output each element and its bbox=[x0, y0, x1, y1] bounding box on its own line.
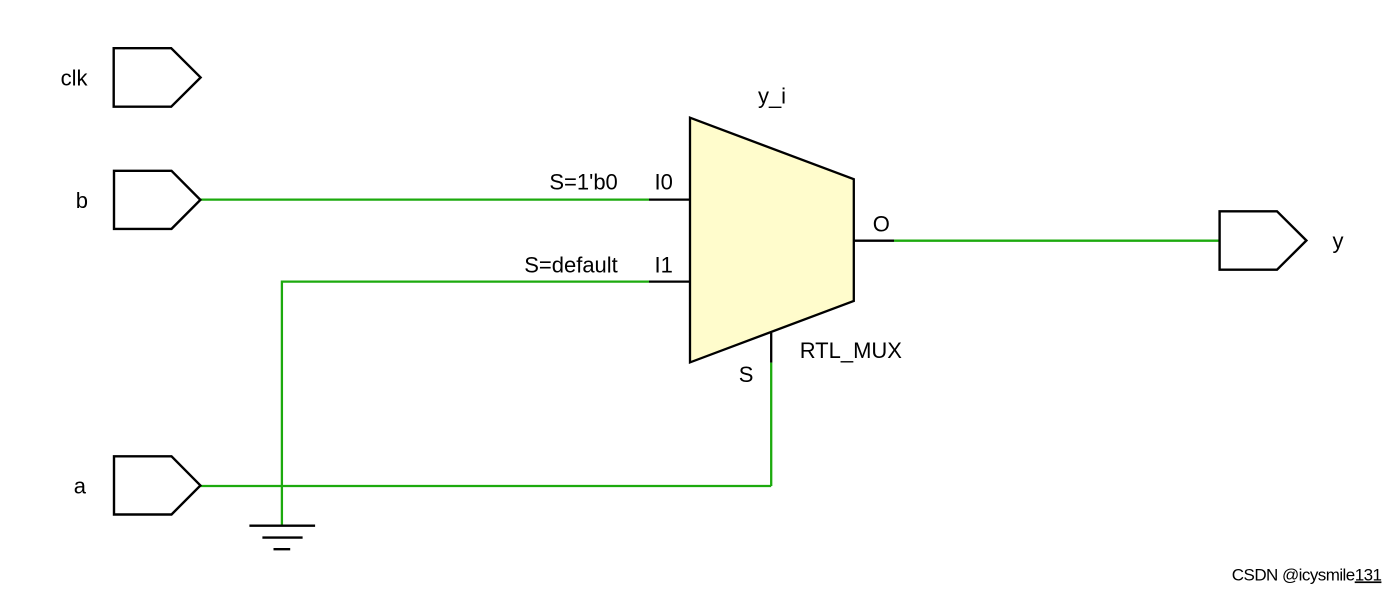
svg-text:a: a bbox=[74, 474, 87, 499]
svg-text:CSDN @icysmile131: CSDN @icysmile131 bbox=[1232, 565, 1382, 584]
svg-text:S=1'b0: S=1'b0 bbox=[549, 170, 617, 195]
svg-text:b: b bbox=[76, 188, 88, 213]
svg-text:RTL_MUX: RTL_MUX bbox=[800, 338, 903, 363]
svg-text:O: O bbox=[873, 211, 890, 236]
svg-text:I0: I0 bbox=[655, 170, 673, 195]
svg-text:I1: I1 bbox=[655, 253, 673, 278]
svg-text:S=default: S=default bbox=[524, 253, 618, 278]
svg-text:S: S bbox=[739, 362, 754, 387]
svg-text:y: y bbox=[1333, 229, 1344, 254]
svg-text:y_i: y_i bbox=[758, 84, 786, 109]
svg-text:clk: clk bbox=[61, 66, 89, 91]
